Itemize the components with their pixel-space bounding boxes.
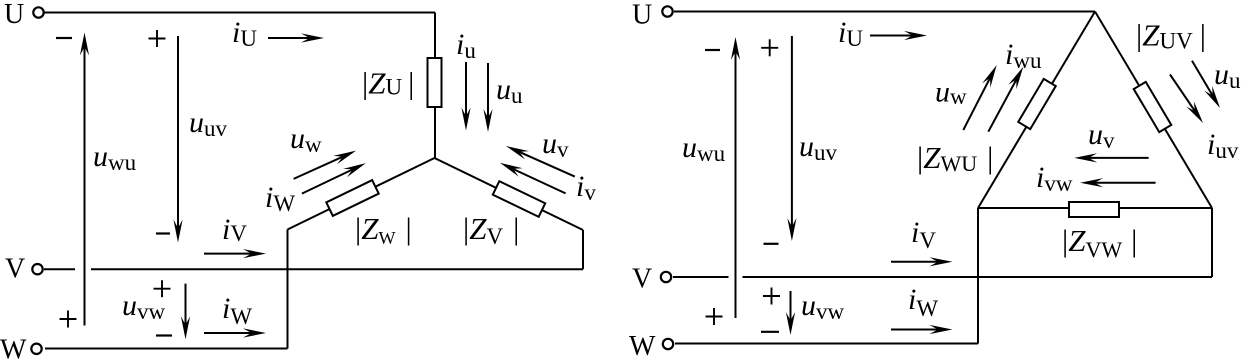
svg-text:iV: iV — [222, 213, 247, 246]
svg-text:V: V — [632, 264, 652, 295]
svg-text:uv: uv — [1088, 118, 1115, 153]
svg-text:uuv: uuv — [799, 130, 838, 165]
svg-text:|ZW|: |ZW| — [355, 211, 412, 248]
svg-text:|ZUV|: |ZUV| — [1136, 18, 1206, 54]
svg-text:iv: iv — [576, 170, 596, 205]
svg-text:uvw: uvw — [122, 289, 166, 324]
svg-text:iW: iW — [908, 283, 938, 321]
svg-text:uv: uv — [542, 127, 569, 162]
svg-text:iW: iW — [265, 181, 295, 216]
svg-text:W: W — [0, 335, 27, 360]
svg-text:U: U — [632, 0, 652, 31]
svg-text:uvw: uvw — [801, 289, 845, 324]
svg-text:iwu: iwu — [1005, 38, 1042, 73]
svg-text:iu: iu — [456, 28, 476, 63]
svg-text:V: V — [5, 254, 25, 285]
svg-text:ivw: ivw — [1036, 161, 1073, 196]
svg-text:uw: uw — [935, 76, 967, 110]
svg-text:iU: iU — [232, 16, 257, 51]
svg-text:uu: uu — [496, 73, 523, 108]
svg-text:uw: uw — [290, 122, 322, 157]
svg-text:U: U — [4, 0, 24, 30]
svg-text:iU: iU — [838, 16, 863, 51]
svg-text:iW: iW — [222, 292, 252, 329]
svg-text:|ZV|: |ZV| — [463, 211, 519, 249]
svg-text:iuv: iuv — [1207, 128, 1239, 163]
svg-text:iV: iV — [911, 216, 936, 253]
svg-text:uuv: uuv — [189, 106, 228, 141]
svg-text:|ZWU|: |ZWU| — [917, 140, 993, 176]
svg-text:uwu: uwu — [93, 140, 137, 175]
svg-text:W: W — [629, 331, 656, 360]
svg-text:uu: uu — [1214, 58, 1241, 93]
svg-text:|ZU|: |ZU| — [362, 66, 414, 101]
svg-text:uwu: uwu — [682, 131, 726, 166]
svg-text:|ZVW|: |ZVW| — [1062, 223, 1137, 262]
